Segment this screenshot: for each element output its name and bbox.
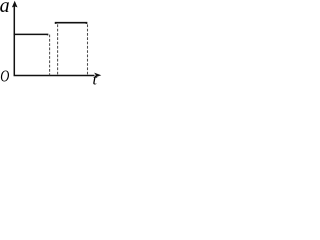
svg-text:O: O	[0, 68, 9, 86]
y-axis arrowhead	[12, 1, 18, 8]
x-axis arrowhead	[94, 73, 101, 78]
step segment 1	[14, 34, 48, 35]
dashed drop line t3	[87, 24, 89, 75]
dashed drop line t2	[57, 24, 59, 75]
dashed drop line t1	[49, 35, 51, 76]
y-axis shaft	[14, 6, 94, 76]
step segment 2	[56, 23, 87, 24]
svg-text:a: a	[0, 0, 10, 17]
svg-text:t: t	[93, 71, 98, 86]
